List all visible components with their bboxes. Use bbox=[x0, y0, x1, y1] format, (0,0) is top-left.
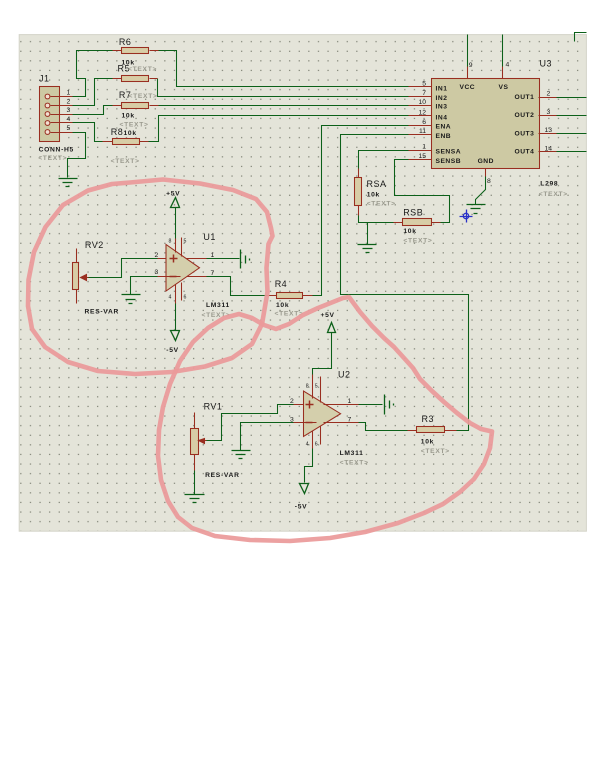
svg-text:RES-VAR: RES-VAR bbox=[85, 309, 120, 316]
resistor RSB body and stubs bbox=[394, 219, 441, 226]
svg-text:10k: 10k bbox=[124, 130, 137, 137]
wire U3 ENB to R3 bbox=[341, 135, 469, 431]
svg-text:SENSB: SENSB bbox=[436, 158, 462, 165]
svg-text:LM311: LM311 bbox=[206, 302, 230, 309]
U3 pin number 4 bbox=[506, 61, 510, 68]
svg-text:<TEXT>: <TEXT> bbox=[340, 460, 369, 467]
wire U2 pin1 to rotated ground bbox=[359, 404, 383, 406]
svg-text:5: 5 bbox=[315, 384, 318, 390]
ground for U1 pin3 bbox=[122, 295, 141, 304]
U2 property text bbox=[340, 460, 369, 467]
svg-text:IN2: IN2 bbox=[436, 95, 448, 102]
svg-text:R4: R4 bbox=[275, 279, 288, 289]
value 10k of R8 bbox=[124, 130, 137, 137]
wire U3 SENSA to RSA bbox=[359, 151, 409, 171]
label RV2 bbox=[85, 240, 104, 250]
+5V label above U1 bbox=[166, 191, 180, 198]
wire U1 pin1 to rotated ground bbox=[207, 258, 240, 260]
svg-text:4: 4 bbox=[67, 116, 71, 123]
J1 property text bbox=[38, 155, 67, 162]
svg-text:8: 8 bbox=[169, 239, 172, 245]
wire R8 to U3 IN4 bbox=[149, 116, 409, 142]
value 10k of R4 bbox=[276, 302, 289, 309]
svg-text:OUT2: OUT2 bbox=[515, 112, 535, 119]
svg-text:CONN-H5: CONN-H5 bbox=[39, 146, 74, 153]
svg-text:7: 7 bbox=[422, 90, 426, 97]
svg-text:6: 6 bbox=[184, 295, 187, 301]
U3 pin names left column bbox=[436, 86, 462, 166]
svg-text:12: 12 bbox=[418, 109, 426, 116]
wire +5V arrow to U2 V+ bbox=[313, 333, 332, 379]
value 10k of RSB bbox=[403, 228, 416, 235]
ground under J1 bbox=[59, 179, 78, 187]
wire RSA bottom to RSB left bbox=[359, 216, 394, 223]
svg-text:1: 1 bbox=[67, 90, 71, 97]
value LM311 of U1 bbox=[206, 302, 230, 309]
R7 property text bbox=[120, 121, 149, 128]
value CONN-H5 bbox=[39, 146, 74, 153]
svg-text:8: 8 bbox=[306, 384, 309, 390]
wire J1 pin2 to R5 bbox=[73, 79, 113, 106]
potentiometer RV2 body, stubs and wiper arrow bbox=[73, 249, 89, 304]
R6 property text bbox=[128, 66, 157, 73]
svg-text:<TEXT>: <TEXT> bbox=[539, 191, 568, 198]
U3 pin names VCC VS GND bbox=[460, 84, 509, 165]
svg-text:<TEXT>: <TEXT> bbox=[129, 93, 158, 100]
value LM311 of U2 bbox=[340, 450, 364, 457]
pink freehand annotation loop around U1 section bbox=[28, 180, 273, 375]
svg-text:10k: 10k bbox=[367, 192, 380, 199]
wire U2 pin3 to ground bbox=[241, 423, 294, 451]
svg-text:<TEXT>: <TEXT> bbox=[421, 448, 450, 455]
label R8 bbox=[111, 127, 124, 137]
wire U3 SENSB to RSB bbox=[395, 160, 450, 223]
svg-text:10k: 10k bbox=[122, 112, 135, 119]
-5V power arrow below U1 bbox=[171, 331, 180, 341]
-5V label below U1 bbox=[166, 347, 179, 354]
wire J1 pin5 to ground bbox=[68, 133, 86, 178]
wire J1 pin1 to R6 bbox=[73, 51, 113, 97]
wire +5V arrow to U1 V+ bbox=[175, 208, 177, 241]
ground under RSA junction bbox=[358, 245, 377, 253]
svg-text:GND: GND bbox=[478, 158, 494, 165]
pink freehand annotation loop around U2 section bbox=[158, 297, 492, 541]
value RES-VAR of RV2 bbox=[85, 309, 120, 316]
value RES-VAR of RV1 bbox=[205, 472, 240, 479]
ground under RV1 bbox=[185, 495, 205, 503]
label U3 bbox=[540, 59, 553, 69]
wire elbow at top right bbox=[575, 33, 587, 42]
resistor R7 body and stubs bbox=[113, 103, 159, 109]
svg-text:5: 5 bbox=[422, 81, 426, 88]
svg-text:+5V: +5V bbox=[321, 312, 335, 319]
U3 right pin stubs bbox=[539, 98, 557, 152]
svg-text:3: 3 bbox=[67, 107, 71, 114]
svg-text:1: 1 bbox=[422, 144, 426, 151]
svg-text:1: 1 bbox=[211, 252, 215, 259]
svg-text:RSA: RSA bbox=[367, 179, 387, 189]
wire U3 GND pin to ground bbox=[476, 177, 486, 205]
wire junction to ground under RSA bbox=[367, 223, 369, 245]
wire U1 pin3 to ground bbox=[131, 277, 158, 295]
connector J1 body bbox=[40, 87, 60, 142]
svg-text:10k: 10k bbox=[403, 228, 416, 235]
svg-text:3: 3 bbox=[290, 416, 294, 423]
J1 pin circles and stubs bbox=[45, 94, 72, 134]
svg-text:4: 4 bbox=[506, 61, 510, 68]
U3 left pin stubs bbox=[409, 87, 432, 160]
svg-text:14: 14 bbox=[545, 145, 553, 152]
U3 bottom GND pin stub bbox=[485, 169, 487, 177]
R4 property text bbox=[275, 311, 304, 318]
wire U2 pin7 to R3 bbox=[359, 423, 408, 431]
label U2 bbox=[338, 370, 351, 380]
label R3 bbox=[422, 414, 435, 424]
svg-text:9: 9 bbox=[469, 62, 473, 69]
+5V label above U2 bbox=[321, 312, 335, 319]
label U1 bbox=[203, 232, 216, 242]
svg-text:10k: 10k bbox=[421, 438, 434, 445]
svg-text:-5V: -5V bbox=[295, 504, 308, 511]
svg-text:LM311: LM311 bbox=[340, 450, 364, 457]
svg-text:RSB: RSB bbox=[403, 208, 423, 218]
svg-text:7: 7 bbox=[348, 416, 352, 423]
svg-text:6: 6 bbox=[315, 442, 318, 448]
svg-text:SENSA: SENSA bbox=[436, 149, 462, 156]
J1 pin numbers 1-5 bbox=[67, 90, 71, 133]
+5V power arrow above U2 bbox=[328, 323, 336, 333]
svg-text:U3: U3 bbox=[540, 59, 553, 69]
svg-text:R8: R8 bbox=[111, 127, 124, 137]
U3 pin number 9 bbox=[469, 62, 473, 69]
U3 pin names right column bbox=[515, 94, 535, 156]
svg-text:4: 4 bbox=[169, 295, 172, 301]
ground for U2 pin3 bbox=[232, 451, 251, 459]
resistor RSA body and stubs bbox=[355, 169, 362, 216]
svg-text:13: 13 bbox=[545, 127, 553, 134]
svg-text:U2: U2 bbox=[338, 370, 351, 380]
svg-text:RV2: RV2 bbox=[85, 240, 104, 250]
ground for U3 GND pin bbox=[467, 205, 486, 214]
svg-text:J1: J1 bbox=[39, 74, 50, 84]
svg-text:ENB: ENB bbox=[436, 133, 452, 140]
svg-text:3: 3 bbox=[155, 269, 159, 276]
label R5 bbox=[118, 64, 131, 74]
op-amp comparator U1 triangle and pin stubs bbox=[158, 238, 207, 304]
svg-text:2: 2 bbox=[547, 91, 551, 98]
U1 property text bbox=[202, 312, 231, 319]
value 10k of R3 bbox=[421, 438, 434, 445]
rotated ground at U2 pin1 bbox=[385, 395, 394, 415]
wire RV1 bottom to ground bbox=[194, 471, 196, 495]
wire U1 V- to -5V arrow bbox=[175, 303, 177, 331]
svg-text:<TEXT>: <TEXT> bbox=[111, 158, 140, 165]
svg-text:6: 6 bbox=[422, 119, 426, 126]
svg-text:OUT4: OUT4 bbox=[515, 149, 535, 156]
value L298 bbox=[540, 180, 558, 187]
R5 property text bbox=[129, 93, 158, 100]
wire R5 to U3 IN2 bbox=[158, 79, 409, 97]
value 10k of R7 bbox=[122, 112, 135, 119]
svg-text:11: 11 bbox=[419, 128, 426, 135]
label RV1 bbox=[204, 402, 223, 412]
svg-text:L298: L298 bbox=[540, 180, 558, 187]
wire U1 pin7 to R4 bbox=[207, 277, 267, 296]
svg-text:15: 15 bbox=[418, 153, 426, 160]
svg-text:<TEXT>: <TEXT> bbox=[403, 238, 432, 245]
U3 property text bbox=[539, 191, 568, 198]
resistor R4 body and stubs bbox=[267, 293, 313, 299]
wire J1 pin3 to R7 bbox=[73, 106, 113, 115]
R3 property text bbox=[421, 448, 450, 455]
value 10k of RSA bbox=[367, 192, 380, 199]
wire U1 pin2 to RV2 wiper bbox=[85, 259, 158, 278]
svg-text:3: 3 bbox=[547, 109, 551, 116]
L298 chip U3 body bbox=[432, 79, 540, 169]
U2 power pin numbers 8 5 4 6 bbox=[306, 384, 318, 448]
wire U3 OUT1 to right edge bbox=[557, 97, 587, 99]
wire U2 pin2 to RV1 wiper bbox=[205, 405, 294, 441]
resistor R6 body and stubs bbox=[113, 48, 159, 54]
svg-text:2: 2 bbox=[67, 99, 71, 106]
svg-text:2: 2 bbox=[290, 398, 294, 405]
svg-text:<TEXT>: <TEXT> bbox=[367, 201, 396, 208]
label R6 bbox=[119, 37, 132, 47]
svg-text:10: 10 bbox=[418, 99, 426, 106]
label RSB bbox=[403, 208, 423, 218]
U2 pin numbers bbox=[290, 398, 352, 424]
blue origin marker near U3 ground bbox=[460, 210, 473, 223]
svg-text:RES-VAR: RES-VAR bbox=[205, 472, 240, 479]
-5V label below U2 bbox=[295, 504, 308, 511]
resistor R8 body and stubs bbox=[103, 139, 149, 145]
wire R7 to U3 IN3 bbox=[159, 105, 409, 107]
+5V power arrow above U1 bbox=[171, 198, 180, 208]
svg-text:R6: R6 bbox=[119, 37, 132, 47]
wire R6 to U3 IN1 bbox=[159, 51, 409, 87]
U1 power pin numbers 8 5 4 6 bbox=[169, 239, 187, 301]
svg-text:<TEXT>: <TEXT> bbox=[128, 66, 157, 73]
-5V power arrow below U2 bbox=[300, 484, 309, 494]
U3 pin numbers right bbox=[545, 91, 553, 153]
svg-text:2: 2 bbox=[155, 252, 159, 259]
svg-text:VCC: VCC bbox=[460, 84, 476, 91]
value 10k of R6 bbox=[122, 59, 135, 66]
potentiometer RV1 body, stubs and wiper arrow bbox=[191, 413, 207, 471]
schematic sheet with grid dots bbox=[19, 35, 586, 532]
svg-text:IN4: IN4 bbox=[436, 114, 448, 121]
svg-text:7: 7 bbox=[211, 270, 215, 277]
op-amp comparator U2 triangle and pin stubs bbox=[294, 375, 359, 449]
wire U3 OUT3 to right edge bbox=[557, 133, 587, 135]
svg-text:OUT1: OUT1 bbox=[515, 94, 535, 101]
svg-text:-5V: -5V bbox=[166, 347, 179, 354]
RSB property text bbox=[403, 238, 432, 245]
rotated ground at U1 pin1 bbox=[241, 250, 250, 269]
svg-text:RV1: RV1 bbox=[204, 402, 223, 412]
wire U3 VS up to sheet top bbox=[502, 35, 504, 67]
label R4 bbox=[275, 279, 288, 289]
label RSA bbox=[367, 179, 387, 189]
RSA property text bbox=[367, 201, 396, 208]
wire U3 ENA to R4 bbox=[313, 126, 409, 296]
svg-text:<TEXT>: <TEXT> bbox=[38, 155, 67, 162]
svg-text:U1: U1 bbox=[203, 232, 216, 242]
resistor R5 body and stubs bbox=[113, 76, 158, 82]
svg-text:IN1: IN1 bbox=[436, 86, 448, 93]
R8 property text bbox=[111, 158, 140, 165]
svg-text:R3: R3 bbox=[422, 414, 435, 424]
svg-text:<TEXT>: <TEXT> bbox=[120, 121, 149, 128]
label R7 bbox=[119, 90, 132, 100]
svg-text:1: 1 bbox=[348, 398, 352, 405]
U3 pin number 8 bbox=[487, 178, 491, 185]
svg-text:4: 4 bbox=[306, 442, 309, 448]
svg-text:IN3: IN3 bbox=[436, 104, 448, 111]
svg-text:5: 5 bbox=[184, 239, 187, 245]
label J1 bbox=[39, 74, 50, 84]
wire U2 V- to -5V arrow bbox=[305, 449, 313, 483]
U1 pin numbers bbox=[155, 252, 215, 277]
svg-text:10k: 10k bbox=[276, 302, 289, 309]
U3 pin numbers left bbox=[418, 81, 426, 161]
svg-text:+5V: +5V bbox=[166, 191, 180, 198]
svg-text:OUT3: OUT3 bbox=[515, 130, 535, 137]
resistor R3 body and stubs bbox=[408, 427, 457, 433]
svg-text:8: 8 bbox=[487, 178, 491, 185]
wire U3 VCC up to sheet top bbox=[467, 35, 469, 67]
svg-text:ENA: ENA bbox=[436, 124, 452, 131]
U3 top pin stubs bbox=[468, 67, 503, 79]
svg-text:5: 5 bbox=[67, 125, 71, 132]
wire U3 OUT2 to right edge bbox=[557, 115, 587, 117]
svg-text:VS: VS bbox=[499, 84, 509, 91]
wire U3 OUT4 to right edge bbox=[557, 151, 587, 153]
wire J1 pin4 to R8 bbox=[73, 123, 103, 142]
